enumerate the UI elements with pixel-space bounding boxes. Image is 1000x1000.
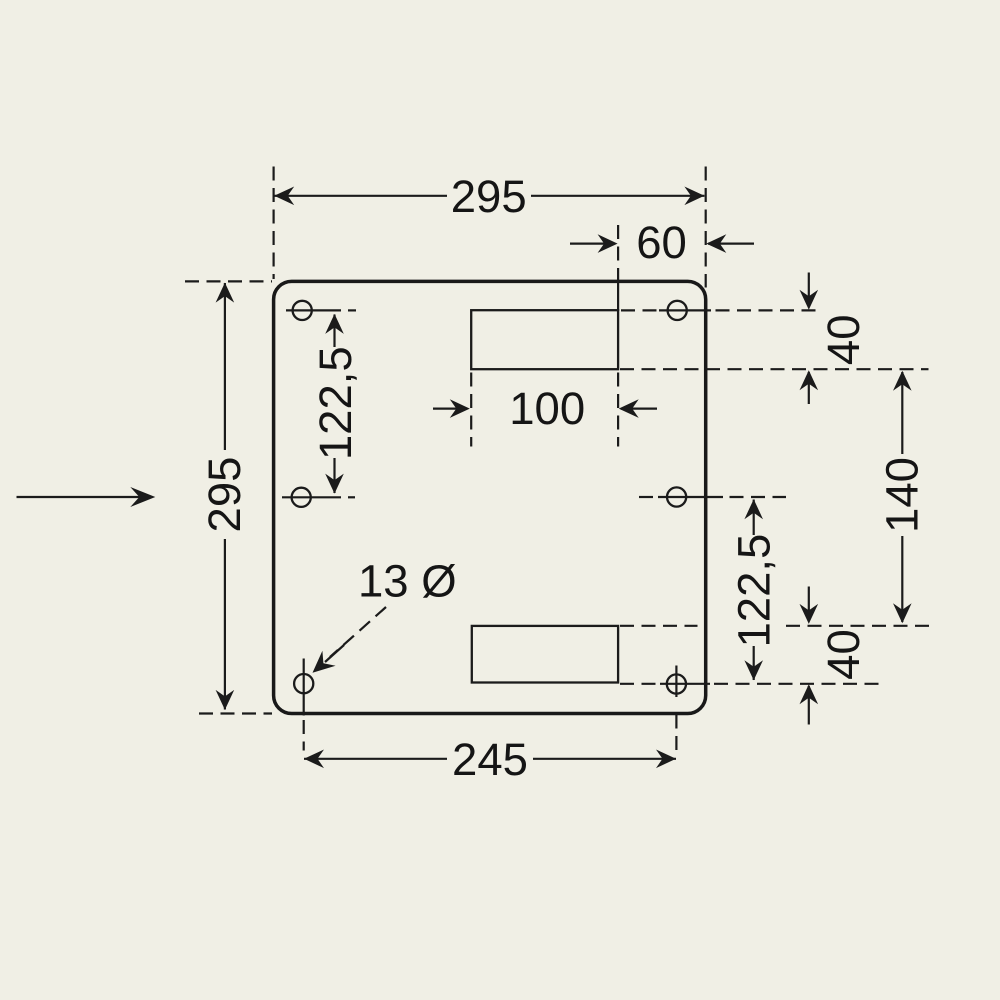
svg-text:122,5: 122,5 [310,346,361,460]
svg-text:122,5: 122,5 [729,534,780,648]
svg-text:140: 140 [876,457,927,533]
svg-text:245: 245 [452,734,528,785]
svg-text:295: 295 [451,171,527,222]
svg-text:40: 40 [818,629,869,680]
svg-text:40: 40 [818,314,869,365]
svg-text:100: 100 [509,383,585,434]
svg-text:13 Ø: 13 Ø [358,555,457,606]
svg-text:60: 60 [636,217,687,268]
svg-text:295: 295 [199,457,250,533]
